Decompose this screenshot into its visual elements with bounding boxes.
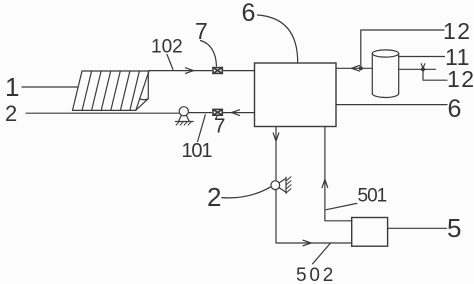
svg-text:6: 6 [448, 95, 462, 123]
svg-text:7: 7 [214, 115, 225, 138]
svg-text:12: 12 [443, 18, 472, 44]
svg-text:1: 1 [5, 72, 19, 102]
svg-text:6: 6 [242, 0, 256, 27]
svg-text:12: 12 [447, 66, 474, 92]
svg-text:5: 5 [447, 213, 461, 243]
svg-text:502: 502 [296, 265, 336, 284]
svg-text:2: 2 [207, 182, 221, 212]
svg-text:501: 501 [358, 186, 387, 207]
svg-text:102: 102 [151, 37, 183, 58]
svg-text:7: 7 [195, 18, 208, 44]
svg-text:2: 2 [5, 101, 17, 126]
svg-text:101: 101 [182, 140, 213, 162]
